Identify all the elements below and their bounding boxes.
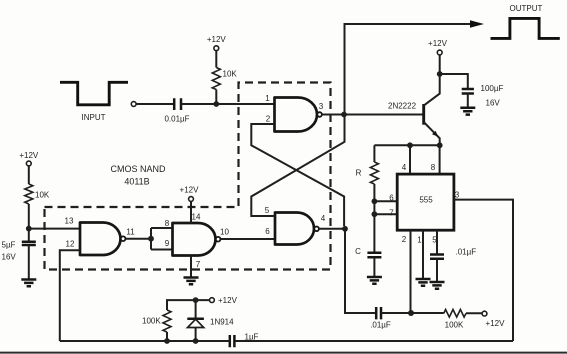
node pin3 junction (341, 112, 347, 118)
svg-text:+12V: +12V (19, 151, 39, 160)
node emitter junction (437, 142, 443, 148)
svg-text:0.01µF: 0.01µF (164, 115, 189, 124)
svg-text:16V: 16V (2, 253, 17, 262)
wire cross-couple pin5 to pin3 (251, 117, 344, 216)
svg-text:6: 6 (389, 194, 394, 203)
output waveform (491, 18, 560, 38)
svg-text:100µF: 100µF (481, 84, 504, 93)
+12V terminal (trigger) (482, 311, 487, 316)
capacitor C (367, 253, 381, 258)
svg-text:6: 6 (265, 227, 270, 236)
wire 555 pin8 (439, 145, 441, 174)
svg-text:5µF: 5µF (2, 241, 16, 250)
svg-text:3: 3 (319, 102, 324, 111)
capacitor 1uF (230, 335, 235, 347)
capacitor .01uF (trigger) (376, 307, 381, 319)
svg-text:OUTPUT: OUTPUT (510, 4, 543, 13)
svg-text:14: 14 (192, 213, 201, 222)
node 100K bottom (164, 338, 170, 344)
resistor R (373, 145, 375, 162)
svg-text:4: 4 (321, 214, 326, 223)
svg-text:100K: 100K (445, 321, 464, 330)
svg-text:+12V: +12V (428, 39, 448, 48)
+12V terminal (collector) (437, 50, 442, 55)
svg-text:INPUT: INPUT (82, 113, 106, 122)
node diode top (193, 297, 199, 303)
wire bracket pins 8/9 (151, 228, 173, 250)
svg-text:10: 10 (220, 228, 229, 237)
svg-text:+12V: +12V (486, 319, 506, 328)
capacitor .01uF (pin5) (430, 255, 444, 259)
wire pin14 (190, 201, 192, 223)
wire pin4 output (319, 228, 345, 230)
svg-text:8: 8 (165, 219, 170, 228)
node collector junction (437, 71, 443, 77)
svg-text:4011B: 4011B (124, 177, 149, 187)
wire 555 pin3 output (454, 200, 513, 341)
wire 5uF to ground (28, 245, 30, 280)
wire pin11 to pins8/9 (126, 238, 151, 240)
svg-text:8: 8 (431, 163, 436, 172)
svg-text:10K: 10K (35, 191, 50, 200)
svg-text:.01µF: .01µF (370, 321, 391, 330)
wire pin4 node to trigger cap (345, 229, 376, 313)
svg-text:100K: 100K (142, 317, 161, 326)
+12V terminal (pin14) (189, 197, 194, 202)
svg-text:.01µF: .01µF (456, 248, 477, 257)
wire collector supply (439, 55, 441, 74)
svg-text:1: 1 (265, 94, 270, 103)
wire 555 pin2 (410, 230, 412, 313)
wire trigger cap to node (381, 312, 444, 314)
svg-text:CMOS NAND: CMOS NAND (110, 164, 166, 174)
node left junction (26, 226, 32, 232)
page edge artifact (0, 352, 567, 354)
nand gate U1A pins 1,2,3 (275, 98, 318, 132)
svg-text:7: 7 (389, 209, 394, 218)
capacitor 0.01uF (174, 98, 181, 110)
svg-text:+12V: +12V (207, 35, 227, 44)
wire C1 to NAND pin1 (181, 103, 275, 105)
wire pin7 to ground (190, 256, 192, 278)
wire pin10 to pin6 (221, 238, 275, 240)
resistor 10K (input pullup) (215, 51, 217, 68)
svg-text:16V: 16V (486, 99, 501, 108)
svg-text:11: 11 (126, 228, 135, 237)
wire 100uF to ground (467, 94, 469, 108)
svg-text:10K: 10K (223, 70, 238, 79)
nand gate U1B pins 5,6,4 (275, 213, 314, 245)
svg-text:1N914: 1N914 (210, 318, 234, 327)
wire node to pin13 (29, 228, 80, 230)
wire bottom rail west (60, 340, 230, 342)
wire pin3 output (322, 114, 344, 116)
nand gate U1C pins 13,12,11 (80, 223, 121, 256)
+12V terminal (input pullup) (214, 46, 219, 51)
nand gate U1D pins 8,9,10 (173, 223, 216, 256)
node pin7 junction (372, 211, 378, 217)
wire 555 pin4 (409, 145, 411, 174)
wire output riser (345, 24, 472, 115)
node pins8/9 junction (148, 236, 154, 242)
svg-text:C: C (355, 247, 361, 256)
ground (pin1) (416, 279, 431, 286)
dashed IC outline 4011B (45, 83, 331, 270)
ground (pin7) (184, 278, 199, 285)
resistor 10K (left) (28, 166, 30, 184)
resistor 100K (trigger pullup) (444, 310, 466, 318)
capacitor 5uF (22, 242, 36, 245)
svg-text:2: 2 (402, 235, 407, 244)
svg-text:R: R (356, 169, 362, 178)
node pin4 junction (342, 226, 348, 232)
svg-text:1: 1 (417, 236, 422, 245)
+12V terminal (diode) (210, 298, 215, 303)
wire pin12 feedback riser (60, 250, 80, 341)
svg-text:5: 5 (265, 206, 270, 215)
wire 555 pin6 (374, 200, 397, 202)
ground (5uF) (21, 280, 36, 287)
ground (100uF) (460, 108, 475, 115)
svg-text:2N2222: 2N2222 (388, 102, 417, 111)
node diode bottom (193, 338, 199, 344)
node pin6 junction (372, 198, 378, 204)
svg-text:13: 13 (65, 217, 74, 226)
wire input to C1 (136, 103, 174, 105)
capacitor 100uF (462, 89, 474, 94)
ground (C) (367, 277, 382, 284)
IC 555 (397, 174, 454, 230)
svg-text:555: 555 (419, 196, 433, 205)
wire pin5 cap to ground (436, 259, 438, 282)
+12V terminal (left) (26, 161, 31, 166)
input waveform (60, 82, 128, 105)
wire to 100uF (440, 74, 468, 89)
wire 555 pin5 (436, 230, 438, 254)
arrowhead (470, 20, 484, 27)
wire emitter rail (374, 144, 439, 146)
svg-text:+12V: +12V (180, 186, 200, 195)
svg-text:+12V: +12V (218, 296, 238, 305)
svg-text:2: 2 (266, 115, 271, 124)
wire bottom feedback rail (234, 340, 513, 342)
wire 555 pin1 to ground (422, 230, 424, 279)
svg-text:3: 3 (455, 191, 460, 200)
svg-text:9: 9 (165, 239, 170, 248)
node input junction (213, 101, 219, 107)
diode 1N914 (195, 300, 197, 341)
svg-text:7: 7 (196, 260, 201, 269)
svg-text:4: 4 (402, 163, 407, 172)
wire to +12V terminal (466, 312, 482, 314)
node pin4 rail junction (407, 142, 413, 148)
wire 555 pin7 (374, 213, 397, 215)
wire base (344, 114, 424, 116)
svg-text:1µF: 1µF (245, 333, 259, 342)
wire C to ground (373, 257, 375, 277)
node trigger junction (408, 310, 414, 316)
wire cross-couple pin2 to pin4 (251, 124, 344, 226)
input terminal (131, 102, 136, 107)
transistor Q1 2N2222 (422, 104, 425, 125)
ground (pin5) (430, 282, 445, 289)
svg-text:12: 12 (66, 240, 75, 249)
resistor 100K (timing) (166, 332, 168, 341)
